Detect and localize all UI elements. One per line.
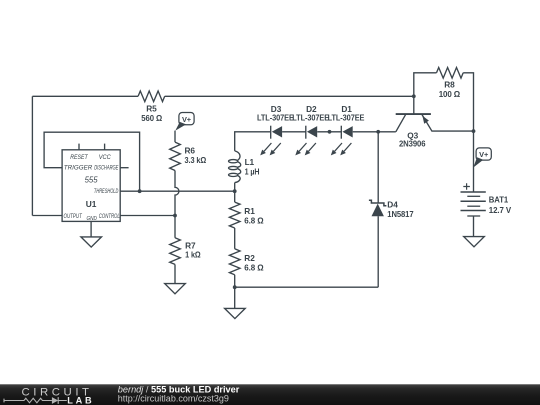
LED D2 — [292, 104, 329, 156]
svg-text:LTL-307EE: LTL-307EE — [328, 112, 365, 122]
svg-text:3.3 kΩ: 3.3 kΩ — [185, 155, 207, 165]
svg-text:V+: V+ — [479, 150, 489, 159]
resistor R7 — [170, 216, 201, 284]
svg-text:LAB: LAB — [67, 395, 94, 405]
junction dot threshold-divider — [233, 189, 237, 193]
svg-text:100 Ω: 100 Ω — [439, 89, 461, 99]
svg-text:2N3906: 2N3906 — [399, 138, 426, 148]
svg-text:R5: R5 — [146, 104, 157, 114]
svg-text:12.7 V: 12.7 V — [489, 205, 512, 215]
svg-text:DISCHARGE: DISCHARGE — [94, 164, 119, 171]
junction dot emitter node — [472, 129, 476, 133]
svg-text:LTL-307EE: LTL-307EE — [257, 112, 294, 122]
resistor R8 — [437, 68, 464, 100]
resistor R5 — [138, 91, 165, 123]
svg-text:RESET: RESET — [70, 154, 89, 161]
svg-text:LTL-307EE: LTL-307EE — [292, 112, 329, 122]
wire D4 top lead — [377, 132, 379, 203]
svg-text:TRIGGER: TRIGGER — [64, 164, 93, 171]
ground battery — [464, 237, 485, 247]
svg-text:R6: R6 — [185, 145, 196, 155]
svg-text:THRESHOLD: THRESHOLD — [94, 188, 119, 195]
junction dot trigger-threshold — [138, 189, 142, 193]
diode D4 — [369, 199, 414, 287]
wire D1-collector — [353, 131, 396, 133]
ground IC — [90, 221, 92, 237]
svg-text:D4: D4 — [387, 199, 398, 209]
svg-text:CONTROL: CONTROL — [99, 213, 120, 220]
svg-text:OUTPUT: OUTPUT — [64, 213, 83, 220]
wire output — [32, 215, 62, 217]
IC U1 555 timer — [62, 144, 120, 223]
LED D1 — [328, 104, 365, 156]
junction dot base node — [412, 94, 416, 98]
footer bar — [0, 384, 540, 405]
wire trigger loop — [44, 132, 140, 191]
wire control — [120, 215, 175, 217]
power flag V+ battery — [473, 148, 491, 168]
wire LED row corner — [235, 132, 271, 151]
wire bottom rail — [235, 286, 379, 288]
svg-text:V+: V+ — [182, 115, 192, 124]
junction dot D2-D1 — [328, 130, 332, 134]
svg-text:U1: U1 — [86, 199, 97, 209]
ground R7 — [165, 284, 186, 294]
resistor R6 — [170, 131, 207, 216]
wire left rail — [31, 96, 33, 215]
wire D2-D1 — [317, 131, 341, 133]
svg-text:6.8 Ω: 6.8 Ω — [244, 262, 264, 272]
svg-text:R8: R8 — [444, 79, 455, 89]
battery BAT1 — [461, 183, 512, 236]
svg-text:http://circuitlab.com/czst3g9: http://circuitlab.com/czst3g9 — [118, 394, 229, 404]
inductor L1 — [229, 151, 260, 191]
LED D3 — [257, 104, 294, 156]
resistor R1 — [229, 191, 264, 228]
svg-text:R1: R1 — [244, 206, 255, 216]
svg-text:1N5817: 1N5817 — [387, 209, 414, 219]
wire R8 right rail — [463, 73, 473, 131]
svg-text:BAT1: BAT1 — [489, 195, 509, 205]
transistor Q3 — [396, 96, 474, 148]
wire R1-R2 — [234, 228, 236, 249]
wire top rail left of R5 — [32, 95, 138, 97]
resistor R2 — [229, 249, 264, 287]
junction dot D4 node — [376, 130, 380, 134]
svg-text:560 Ω: 560 Ω — [141, 113, 162, 123]
wire threshold — [120, 190, 235, 192]
svg-text:1 µH: 1 µH — [245, 166, 260, 176]
svg-text:GND: GND — [87, 216, 97, 222]
svg-text:555: 555 — [85, 176, 99, 185]
svg-text:1 kΩ: 1 kΩ — [185, 250, 201, 260]
wire D3-D2 — [282, 131, 306, 133]
power flag V+ R6 — [175, 113, 194, 131]
wire R8 left — [414, 73, 437, 97]
ground R2 — [234, 287, 236, 308]
wire top rail right of R5 — [165, 95, 414, 97]
CircuitLab logo — [4, 386, 94, 405]
wire rail to battery — [473, 131, 475, 192]
junction dot R2-bottom — [233, 285, 237, 289]
svg-text:R2: R2 — [244, 253, 255, 263]
junction dot control — [173, 214, 177, 218]
wire discharge stub — [120, 167, 128, 169]
svg-text:6.8 Ω: 6.8 Ω — [244, 215, 264, 225]
svg-text:VCC: VCC — [99, 154, 111, 161]
